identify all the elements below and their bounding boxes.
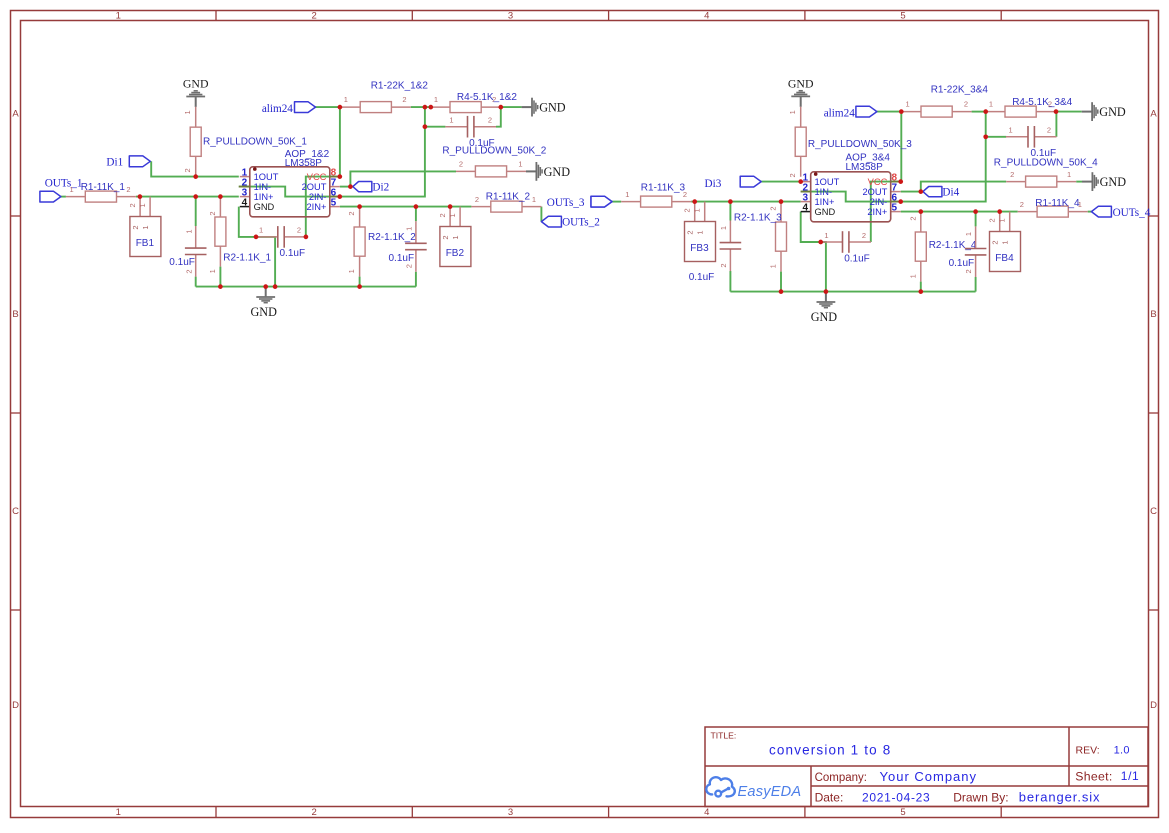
svg-text:1: 1 [518,160,522,169]
svg-text:1IN-: 1IN- [254,182,272,192]
svg-text:0.1uF: 0.1uF [949,258,975,269]
svg-text:2: 2 [719,263,728,267]
svg-text:1: 1 [404,227,413,231]
svg-text:GND: GND [183,77,209,91]
svg-text:alim24: alim24 [824,107,855,119]
svg-text:0.1uF: 0.1uF [844,254,870,265]
svg-text:1: 1 [141,225,150,229]
svg-text:2: 2 [459,160,463,169]
svg-text:2: 2 [991,240,1000,244]
svg-text:2: 2 [686,230,695,234]
svg-text:A: A [12,109,19,120]
svg-text:2: 2 [185,269,194,273]
svg-text:2IN+: 2IN+ [867,207,887,217]
svg-text:2: 2 [1010,170,1014,179]
svg-text:R4-5.1K_3&4: R4-5.1K_3&4 [1012,97,1072,108]
svg-text:LM358P: LM358P [285,158,323,169]
svg-text:2OUT: 2OUT [302,182,327,192]
svg-text:2: 2 [208,211,217,215]
svg-text:REV:: REV: [1076,744,1100,756]
svg-text:GND: GND [1099,105,1126,119]
svg-text:EasyEDA: EasyEDA [738,784,802,800]
svg-text:1IN-: 1IN- [815,187,833,197]
svg-text:2: 2 [488,116,492,125]
svg-text:2: 2 [682,208,691,212]
svg-text:R2-1.1K_3: R2-1.1K_3 [734,213,782,224]
svg-text:1: 1 [138,203,147,207]
svg-text:2IN-: 2IN- [309,192,327,202]
svg-text:1: 1 [208,269,217,273]
svg-text:2: 2 [312,11,317,22]
svg-text:1OUT: 1OUT [815,177,840,187]
svg-text:GND: GND [250,305,277,319]
svg-text:2: 2 [862,231,866,240]
svg-text:R1-22K_3&4: R1-22K_3&4 [931,84,989,95]
svg-text:4: 4 [704,11,709,22]
svg-text:OUTs_4: OUTs_4 [1113,207,1151,219]
svg-text:1: 1 [824,231,828,240]
svg-text:1IN+: 1IN+ [254,192,274,202]
svg-text:2: 2 [475,195,479,204]
svg-text:2: 2 [404,264,413,268]
svg-text:1: 1 [434,95,438,104]
svg-text:R2-1.1K_2: R2-1.1K_2 [368,232,416,243]
svg-text:R_PULLDOWN_50K_1: R_PULLDOWN_50K_1 [203,136,307,147]
svg-text:1: 1 [719,226,728,230]
svg-text:OUTs_3: OUTs_3 [547,197,585,209]
svg-text:2: 2 [297,226,301,235]
svg-text:4: 4 [242,198,248,209]
svg-text:GND: GND [815,207,836,217]
svg-text:R1-11K_2: R1-11K_2 [486,192,531,203]
svg-text:conversion 1 to 8: conversion 1 to 8 [769,742,891,757]
svg-text:2: 2 [347,211,356,215]
svg-text:0.1uF: 0.1uF [280,248,306,259]
svg-text:FB4: FB4 [995,253,1014,264]
svg-text:1OUT: 1OUT [254,172,279,182]
svg-text:B: B [12,309,18,320]
svg-text:2: 2 [438,213,447,217]
svg-text:C: C [1150,506,1157,517]
svg-text:1: 1 [625,190,629,199]
svg-text:R1-11K_4: R1-11K_4 [1035,198,1080,209]
svg-text:2: 2 [128,203,137,207]
svg-text:GND: GND [788,77,814,91]
svg-text:1: 1 [1001,240,1010,244]
svg-text:R_PULLDOWN_50K_4: R_PULLDOWN_50K_4 [994,157,1098,168]
svg-text:2: 2 [441,235,450,239]
svg-text:Di4: Di4 [942,186,959,198]
svg-text:D: D [12,700,19,711]
svg-text:2: 2 [964,269,973,273]
svg-text:3: 3 [508,807,513,818]
svg-text:1: 1 [998,218,1007,222]
svg-text:D: D [1150,700,1157,711]
svg-text:Di1: Di1 [106,157,123,169]
svg-text:1: 1 [259,226,263,235]
svg-text:2: 2 [131,225,140,229]
svg-text:2: 2 [1047,126,1051,135]
svg-text:1: 1 [1067,170,1071,179]
svg-text:1: 1 [449,116,453,125]
svg-text:GND: GND [811,310,838,324]
svg-text:1: 1 [769,264,778,268]
svg-text:2: 2 [908,216,917,220]
svg-text:2: 2 [183,168,192,172]
svg-text:1/1: 1/1 [1121,769,1139,783]
svg-text:VCC: VCC [868,177,888,187]
svg-text:GND: GND [1100,175,1127,189]
svg-text:0.1uF: 0.1uF [689,272,715,283]
svg-text:1: 1 [185,230,194,234]
svg-text:1: 1 [1009,126,1013,135]
svg-text:FB3: FB3 [690,243,709,254]
svg-text:4: 4 [803,203,809,214]
svg-text:2: 2 [964,100,968,109]
svg-text:1: 1 [908,274,917,278]
svg-text:5: 5 [331,198,337,209]
svg-text:1: 1 [344,95,348,104]
svg-text:1: 1 [116,11,121,22]
svg-text:alim24: alim24 [262,103,293,115]
svg-text:Your Company: Your Company [880,769,978,784]
svg-text:FB2: FB2 [446,248,465,259]
svg-text:2: 2 [126,185,130,194]
svg-text:1: 1 [788,110,797,114]
svg-text:2021-04-23: 2021-04-23 [862,790,930,804]
svg-text:5: 5 [900,807,905,818]
svg-text:C: C [12,506,19,517]
svg-text:R1-11K_3: R1-11K_3 [641,182,686,193]
svg-text:5: 5 [892,203,898,214]
svg-text:2: 2 [402,95,406,104]
svg-text:Company:: Company: [815,772,867,784]
svg-text:FB1: FB1 [136,238,155,249]
svg-text:VCC: VCC [307,172,327,182]
svg-text:1.0: 1.0 [1114,745,1130,757]
svg-text:2: 2 [788,173,797,177]
svg-text:GND: GND [539,101,566,115]
svg-text:R4-5.1K_1&2: R4-5.1K_1&2 [457,92,517,103]
svg-text:A: A [1150,109,1157,120]
svg-text:R1-22K_1&2: R1-22K_1&2 [371,81,429,92]
svg-text:Drawn By:: Drawn By: [953,790,1008,804]
svg-text:1: 1 [532,195,536,204]
svg-text:2OUT: 2OUT [863,187,888,197]
svg-text:1: 1 [696,230,705,234]
svg-text:2: 2 [769,206,778,210]
svg-text:1: 1 [347,269,356,273]
svg-text:1: 1 [183,110,192,114]
svg-text:1: 1 [964,232,973,236]
svg-text:2IN+: 2IN+ [306,202,326,212]
svg-text:4: 4 [704,807,709,818]
svg-text:2: 2 [312,807,317,818]
svg-text:1IN+: 1IN+ [815,197,835,207]
svg-text:1: 1 [448,213,457,217]
svg-text:1: 1 [989,100,993,109]
svg-text:beranger.six: beranger.six [1019,789,1101,804]
svg-text:1: 1 [70,185,74,194]
svg-text:GND: GND [254,202,275,212]
svg-text:R2-1.1K_1: R2-1.1K_1 [223,252,271,263]
svg-text:Date:: Date: [815,790,844,804]
svg-text:OUTs_2: OUTs_2 [562,217,600,229]
svg-text:Sheet:: Sheet: [1075,770,1112,784]
svg-text:2: 2 [1020,200,1024,209]
svg-text:1: 1 [906,100,910,109]
svg-text:2IN-: 2IN- [870,197,888,207]
svg-text:1: 1 [451,235,460,239]
svg-text:OUTs_1: OUTs_1 [45,177,83,189]
svg-text:2: 2 [987,218,996,222]
svg-text:0.1uF: 0.1uF [169,257,195,268]
svg-text:R1-11K_1: R1-11K_1 [81,182,126,193]
svg-text:B: B [1150,309,1156,320]
svg-text:1: 1 [693,208,702,212]
svg-text:3: 3 [508,11,513,22]
svg-text:GND: GND [544,165,571,179]
svg-text:TITLE:: TITLE: [711,731,737,741]
svg-text:R2-1.1K_4: R2-1.1K_4 [929,240,977,251]
svg-text:LM358P: LM358P [846,162,884,173]
svg-text:R_PULLDOWN_50K_2: R_PULLDOWN_50K_2 [442,145,546,156]
svg-text:5: 5 [900,11,905,22]
svg-text:R_PULLDOWN_50K_3: R_PULLDOWN_50K_3 [808,139,912,150]
svg-text:1: 1 [116,807,121,818]
svg-text:0.1uF: 0.1uF [389,253,415,264]
svg-text:Di3: Di3 [705,178,722,190]
svg-text:Di2: Di2 [372,182,389,194]
